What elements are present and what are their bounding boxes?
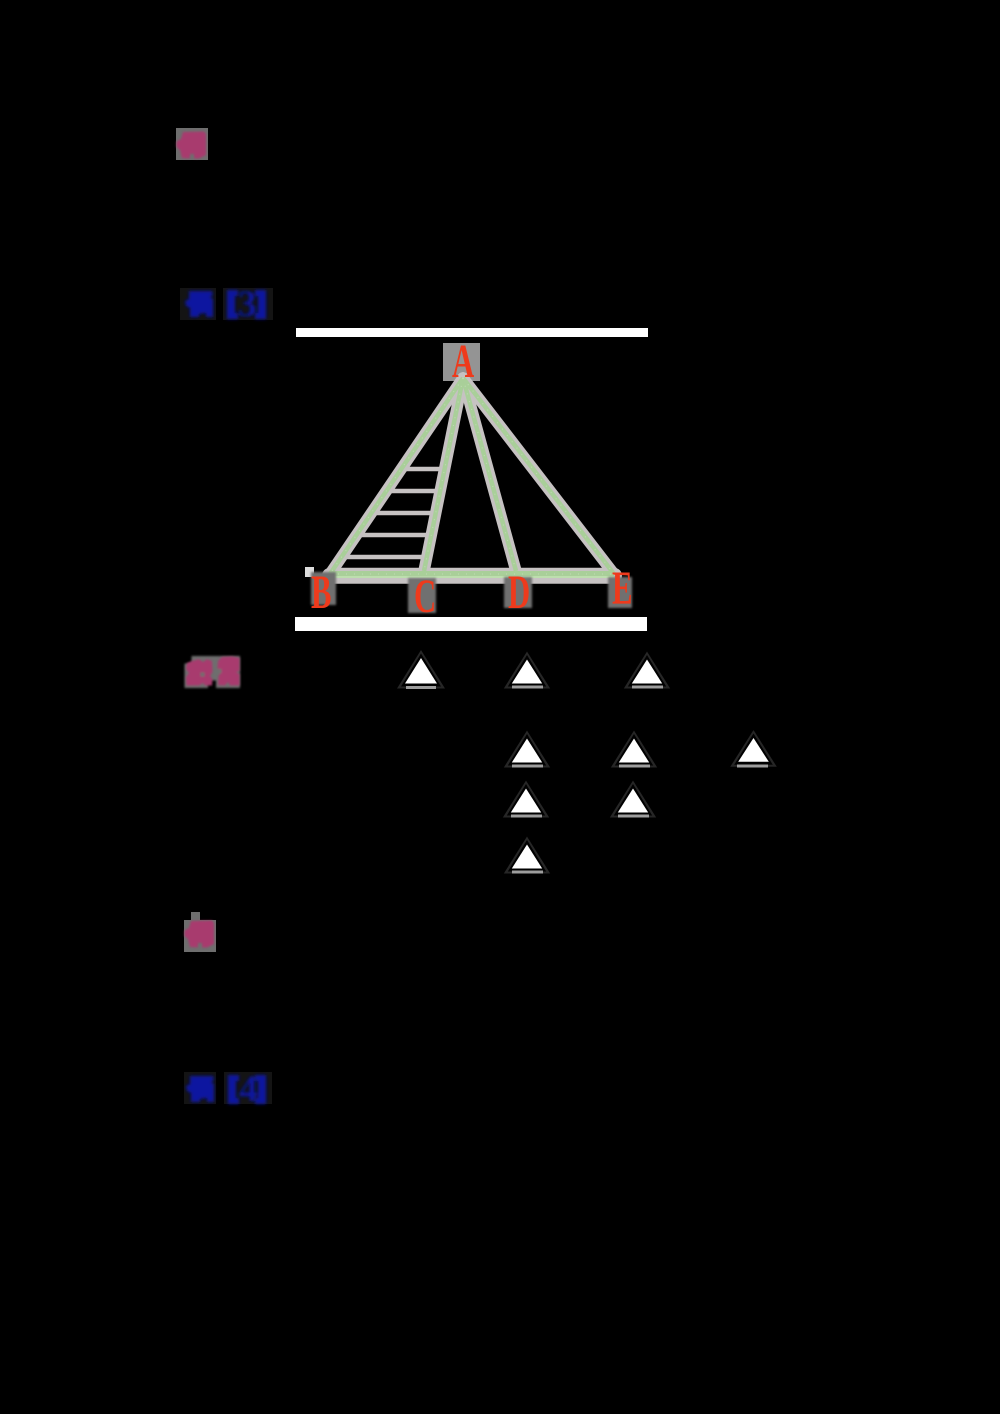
base line grey halo <box>330 568 614 584</box>
white triangle T9 <box>504 837 550 874</box>
section marker 1: grey box with magenta glyph <box>176 128 208 160</box>
white triangle T2 <box>504 652 550 689</box>
glyph ye blob <box>186 1076 214 1102</box>
bracket left <box>227 290 235 319</box>
svg-text:3: 3 <box>238 284 257 325</box>
white triangle T7 <box>503 781 549 818</box>
white triangle T5 <box>611 731 657 768</box>
vertex labels <box>311 334 632 623</box>
grey block behind A label <box>443 343 480 381</box>
white bar 1 <box>296 328 648 337</box>
section marker 2: grey box with magenta glyph <box>184 912 216 952</box>
svg-text:A: A <box>452 334 474 388</box>
bracket left <box>228 1075 236 1104</box>
white bar 2 <box>295 617 647 631</box>
svg-text:C: C <box>414 569 436 623</box>
vertex label backing boxes <box>311 572 632 613</box>
bracket right <box>258 1075 266 1104</box>
triangle diagram: green lines <box>330 378 614 574</box>
white triangle T4 <box>504 731 550 768</box>
hatch rungs between AB and AC <box>342 469 444 557</box>
bracket right <box>258 290 266 319</box>
svg-text:D: D <box>508 565 530 619</box>
white triangle T8 <box>610 781 656 818</box>
triangle diagram: grey halo lines <box>330 378 614 574</box>
white triangle T6 <box>730 730 777 768</box>
white leftover square near B <box>305 567 314 577</box>
svg-text:4: 4 <box>239 1069 258 1110</box>
base line green <box>330 571 614 578</box>
svg-text:E: E <box>612 561 632 615</box>
magenta analysis label <box>185 656 241 688</box>
glyph ye blob <box>185 291 213 317</box>
blue example label [4] <box>184 1069 272 1110</box>
white triangle T1 <box>397 650 445 689</box>
9 white counting triangles <box>397 650 777 874</box>
svg-text:B: B <box>311 565 331 619</box>
blue example label [3] <box>180 284 273 325</box>
white triangle T3 <box>624 652 670 689</box>
white speckles on green lines <box>330 378 614 574</box>
